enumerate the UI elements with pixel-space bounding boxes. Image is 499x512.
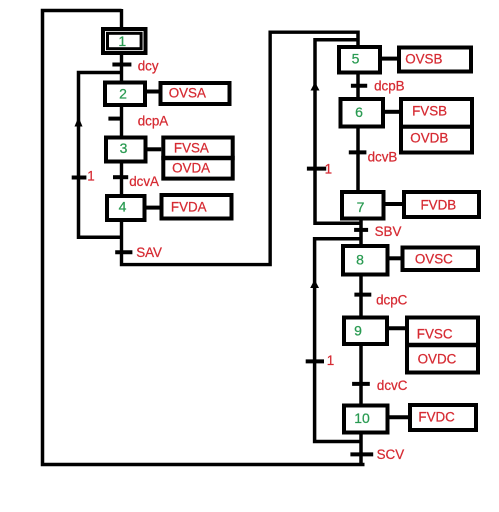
svg-text:OVDA: OVDA: [172, 161, 210, 176]
svg-text:OVSC: OVSC: [415, 252, 453, 267]
svg-text:OVSA: OVSA: [169, 86, 206, 101]
svg-text:7: 7: [357, 199, 365, 215]
arrow on branch B: [311, 82, 320, 91]
action box FVDB: [404, 192, 479, 217]
connector step6-FVSB: [385, 110, 400, 114]
step 6: [341, 99, 384, 127]
svg-text:FVDA: FVDA: [171, 200, 207, 215]
arrow on branch A: [75, 117, 83, 127]
connector step9-FVSC: [389, 326, 406, 330]
transition 1 (branch A) tick: [72, 176, 87, 180]
svg-text:FVSC: FVSC: [417, 327, 453, 342]
svg-text:5: 5: [352, 51, 360, 67]
step 9: [344, 318, 387, 345]
transition 1 (branch B) tick: [307, 167, 326, 171]
step 1 (initial step, double border): [103, 29, 146, 53]
svg-text:1: 1: [325, 162, 332, 177]
action box FVDA: [162, 195, 232, 219]
svg-text:2: 2: [119, 86, 127, 102]
svg-text:10: 10: [354, 410, 370, 426]
step 10: [344, 406, 388, 433]
connector step3-FVSA: [147, 147, 161, 151]
svg-text:SBV: SBV: [375, 224, 402, 239]
connector step7-FVDB: [385, 202, 402, 206]
wire branch C retry loop: [315, 239, 361, 442]
action box OVSC: [403, 248, 479, 271]
svg-text:8: 8: [356, 252, 364, 268]
wire main line section B: [356, 31, 360, 206]
transition 1 (branch C) tick: [306, 359, 324, 363]
svg-text:OVDC: OVDC: [418, 351, 457, 366]
svg-text:dcpA: dcpA: [138, 114, 169, 129]
action box OVSA: [161, 83, 230, 104]
transition dcpB tick: [351, 84, 367, 88]
svg-text:SCV: SCV: [377, 447, 405, 462]
wire branch A retry loop: [79, 73, 122, 238]
svg-text:6: 6: [355, 104, 363, 120]
svg-text:4: 4: [119, 199, 127, 215]
step 8: [343, 246, 388, 275]
connector step5-OVSB: [382, 57, 398, 61]
action box FVSC / OVDC (combined): [405, 318, 480, 373]
arrow on branch C: [310, 280, 319, 289]
svg-text:FVSA: FVSA: [174, 141, 209, 156]
svg-text:9: 9: [354, 323, 362, 339]
svg-text:FVSB: FVSB: [412, 104, 447, 119]
action box FVSB / OVDB (combined): [399, 99, 474, 153]
transition dcpC tick: [354, 293, 371, 297]
transition SCV tick: [350, 452, 373, 456]
connector step4-FVDA: [146, 206, 160, 210]
transition dcy tick: [112, 63, 131, 67]
svg-text:FVDC: FVDC: [418, 410, 455, 425]
svg-text:dcvC: dcvC: [377, 378, 408, 393]
svg-text:dcy: dcy: [138, 59, 159, 74]
transition dcvA tick: [113, 175, 128, 179]
transition dcvC tick: [352, 382, 370, 386]
step 7: [342, 192, 384, 219]
connector step2-OVSA: [147, 90, 159, 94]
step 4: [107, 196, 145, 220]
transition SAV tick: [115, 250, 132, 254]
svg-text:1: 1: [118, 33, 126, 49]
transition dcvB tick: [349, 150, 367, 154]
svg-text:dcvA: dcvA: [129, 174, 159, 189]
step 2: [105, 83, 145, 106]
wire main line section C: [359, 205, 363, 465]
svg-text:3: 3: [120, 140, 128, 156]
transition SBV tick: [354, 228, 368, 232]
svg-text:1: 1: [87, 169, 94, 184]
wire branch B retry loop: [315, 40, 361, 223]
step 5: [339, 47, 380, 73]
step 3: [106, 138, 146, 162]
connector step10-FVDC: [389, 415, 408, 419]
svg-text:1: 1: [327, 353, 334, 368]
svg-text:FVDB: FVDB: [421, 198, 457, 213]
svg-text:SAV: SAV: [136, 245, 162, 260]
wire outer return loop (SCV back to step 1): [43, 11, 365, 465]
connector step8-OVSC: [389, 256, 401, 260]
svg-text:OVSB: OVSB: [405, 51, 442, 66]
wire main line section A and SAV exit to section B: [122, 9, 359, 265]
svg-text:dcpC: dcpC: [376, 293, 408, 308]
svg-text:dcpB: dcpB: [374, 79, 405, 94]
svg-text:dcvB: dcvB: [368, 150, 398, 165]
action box FVDC: [410, 405, 476, 430]
transition dcpA tick: [108, 117, 123, 121]
svg-text:OVDB: OVDB: [410, 131, 448, 146]
action box FVSA / OVDA (combined): [161, 138, 234, 179]
action box OVSB: [399, 48, 471, 72]
